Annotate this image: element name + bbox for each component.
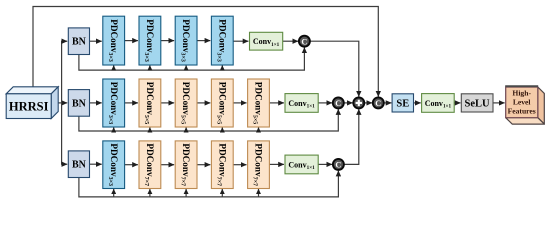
svg-text:BN: BN	[72, 37, 87, 48]
svg-text:High-: High-	[512, 89, 531, 98]
svg-text:Level: Level	[513, 98, 531, 107]
svg-text:C: C	[375, 99, 381, 108]
svg-text:C: C	[335, 99, 341, 108]
svg-text:C: C	[301, 37, 307, 46]
svg-text:BN: BN	[72, 98, 87, 109]
svg-text:Features: Features	[508, 107, 536, 116]
svg-text:SeLU: SeLU	[465, 98, 491, 109]
svg-text:SE: SE	[396, 98, 409, 109]
svg-text:HRRSI: HRRSI	[9, 100, 49, 114]
svg-text:C: C	[335, 161, 341, 170]
svg-text:BN: BN	[72, 160, 87, 171]
